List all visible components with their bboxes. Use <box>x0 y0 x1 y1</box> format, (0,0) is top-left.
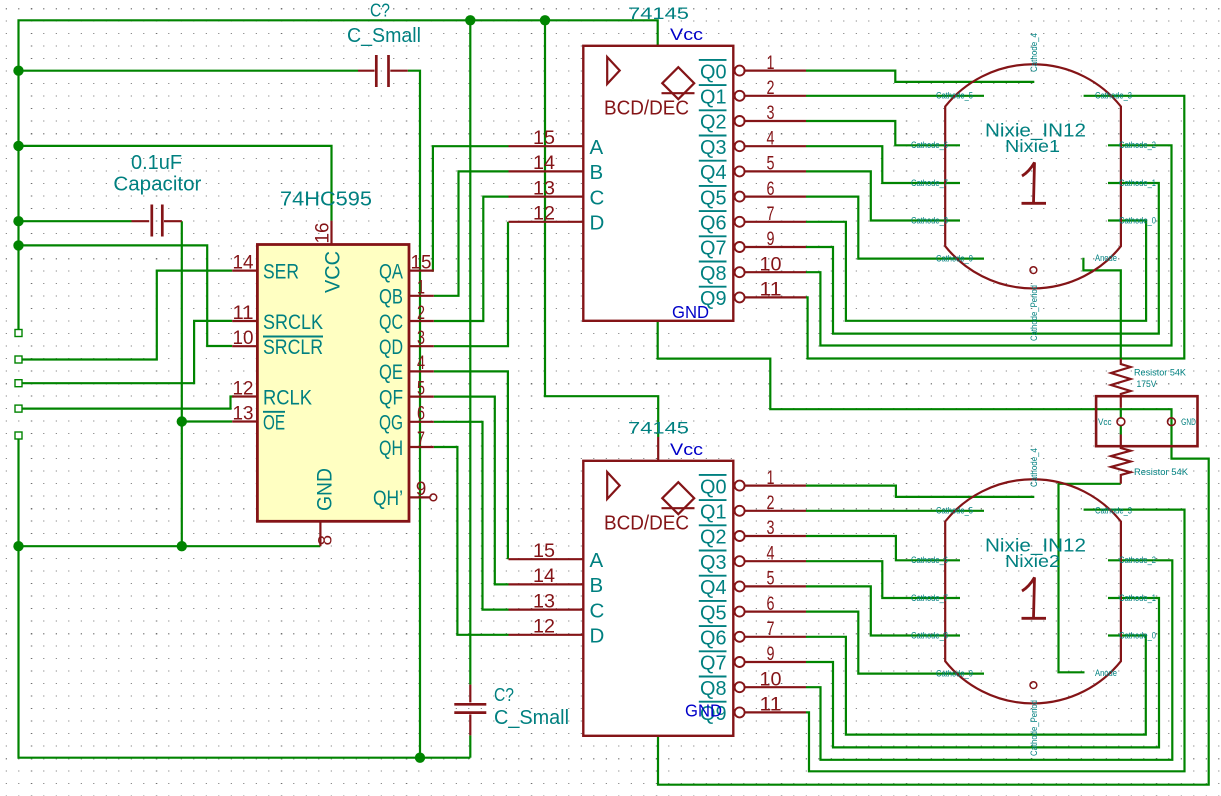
wire junction to C1 left lead <box>19 70 359 72</box>
svg-text:GND: GND <box>1181 417 1196 427</box>
svg-text:Cathode_3: Cathode_3 <box>1095 91 1132 101</box>
pin 13 C U2 <box>509 178 605 209</box>
IC U1 74HC595 body <box>257 245 409 522</box>
svg-text:0.1uF: 0.1uF <box>131 151 182 174</box>
svg-text:D: D <box>590 625 605 648</box>
svg-text:BCD/DEC: BCD/DEC <box>604 512 689 535</box>
pin 3 Q2 U3 (inverted output) <box>699 518 806 549</box>
svg-text:1: 1 <box>767 468 775 489</box>
pin 7 QH U1 <box>379 429 434 460</box>
wire input to U1 SRCLK pin 11 <box>19 321 233 383</box>
svg-text:GND: GND <box>672 302 709 322</box>
wire U3 Q1 to V2 Cathode_5 <box>806 510 984 512</box>
wire input to U1 RCLK pin 12 <box>19 397 234 409</box>
svg-text:13: 13 <box>533 178 555 199</box>
svg-text:3: 3 <box>767 518 775 539</box>
wire input to U1 SRCLR pin 10 <box>19 245 233 346</box>
svg-text:10: 10 <box>760 254 782 275</box>
U3 buffer triangle symbol <box>607 472 620 499</box>
pin 6 Q5 U3 (inverted output) <box>699 594 806 625</box>
svg-text:Q3: Q3 <box>700 551 727 574</box>
svg-text:QB: QB <box>379 286 403 309</box>
wire U3 Q4 to V2 Cathode_8 <box>806 586 960 635</box>
svg-text:Q1: Q1 <box>700 86 727 109</box>
pin 15 QA U1 <box>379 252 434 283</box>
svg-text:Cathode_6: Cathode_6 <box>911 555 948 565</box>
wire U3 Q9 to V2 Cathode_3 <box>806 510 1185 772</box>
svg-text:11: 11 <box>760 280 782 301</box>
pin 6 QG U1 <box>379 404 434 435</box>
svg-text:SER: SER <box>263 260 299 283</box>
wire U1 QA to U2 A <box>433 146 509 270</box>
junction (420,757.7) <box>415 753 425 763</box>
pin 15 A U3 <box>509 541 604 572</box>
resistor R1 54K (upper) <box>1111 359 1131 408</box>
wire GND chain: U2 GND, J1 GND pin, bottom right rail to U3 GND <box>658 321 1209 785</box>
svg-text:Q5: Q5 <box>700 186 727 209</box>
open wire end (18.5,383.2) <box>15 380 22 387</box>
wire U2 Q1 to V1 Cathode_5 <box>806 95 984 97</box>
IC U3 74145 body <box>583 461 733 736</box>
pin 16 VCC U1 (top) <box>313 221 345 293</box>
svg-text:15: 15 <box>533 128 555 149</box>
svg-text:13: 13 <box>233 403 254 424</box>
Nixie1 pin Cathode_Period (bottom, unconnected) <box>1030 267 1037 274</box>
svg-text:15: 15 <box>411 252 432 273</box>
pin 12 D U2 <box>509 204 605 235</box>
svg-text:Resistor 54K: Resistor 54K <box>1134 368 1187 378</box>
svg-text:3: 3 <box>417 328 425 349</box>
pin 4 QE U1 <box>379 353 434 384</box>
junction (181.8,546.2) <box>177 541 187 551</box>
pin Vcc U3 stub <box>657 437 659 461</box>
svg-text:74145: 74145 <box>628 420 689 438</box>
capacitor C1 C? C_Small (top) <box>358 55 408 87</box>
svg-text:C: C <box>590 186 605 209</box>
wire U1 QB to U2 B <box>434 171 509 295</box>
svg-text:Q2: Q2 <box>700 526 727 549</box>
svg-text:QH: QH <box>379 437 403 460</box>
pin 5 Q4 U3 (inverted output) <box>699 569 806 600</box>
svg-text:Cathode_4: Cathode_4 <box>1029 448 1039 487</box>
open wire end (18.5,333) <box>15 330 22 337</box>
wire GND left bus down and bottom rail to C3 <box>19 436 471 758</box>
svg-text:16: 16 <box>313 223 334 244</box>
wire U2 Q7 to V1 Cathode_1 <box>806 183 1159 334</box>
junction (18.5,245.4) <box>13 240 23 250</box>
svg-text:C_Small: C_Small <box>347 25 421 47</box>
pin 11 Q9 U2 (inverted output) <box>699 280 806 311</box>
svg-text:GND: GND <box>685 701 722 721</box>
svg-text:Q0: Q0 <box>700 475 727 498</box>
svg-text:14: 14 <box>233 252 254 273</box>
svg-text:QG: QG <box>379 412 403 435</box>
wire U2 Q0 to V1 Cathode_4 <box>806 71 1034 82</box>
pin 7 Q6 U2 (inverted output) <box>699 204 806 235</box>
wire C2 right lead down to GND rail <box>181 221 183 546</box>
svg-text:OE: OE <box>263 411 285 434</box>
U2 open-collector diamond symbol <box>662 67 695 99</box>
pin 4 Q3 U3 (inverted output) <box>699 543 806 574</box>
svg-text:Q7: Q7 <box>700 652 727 675</box>
svg-text:QD: QD <box>379 336 403 359</box>
svg-text:Nixie2: Nixie2 <box>1005 551 1060 571</box>
svg-text:Cathode_5: Cathode_5 <box>936 91 973 101</box>
pin 9 QH' U1 (unconnected) <box>373 479 437 510</box>
svg-text:9: 9 <box>767 229 775 250</box>
svg-text:6: 6 <box>417 404 425 425</box>
svg-text:4: 4 <box>417 353 425 374</box>
wire C1 right lead down to bottom rail <box>408 71 420 758</box>
svg-text:Cathode_2: Cathode_2 <box>1119 555 1156 565</box>
svg-text:RCLK: RCLK <box>263 386 312 409</box>
svg-text:Q6: Q6 <box>700 212 727 235</box>
pin 8 GND U1 (bottom) <box>314 468 337 546</box>
svg-text:10: 10 <box>233 328 254 349</box>
junction (18.5,70.7) <box>13 66 23 76</box>
svg-text:Cathode_9: Cathode_9 <box>936 668 973 678</box>
svg-text:15: 15 <box>533 541 555 562</box>
wire U2 Q6 to V1 Cathode_0 <box>806 221 1146 321</box>
svg-text:Cathode_4: Cathode_4 <box>1029 33 1039 72</box>
svg-text:Nixie1: Nixie1 <box>1005 136 1060 156</box>
svg-text:8: 8 <box>316 535 337 546</box>
svg-text:Anode: Anode <box>1095 668 1117 678</box>
wire U2 Q9 to V1 Cathode_3 <box>806 96 1184 359</box>
svg-text:Cathode_5: Cathode_5 <box>936 506 973 516</box>
svg-text:Cathode_7: Cathode_7 <box>911 593 948 603</box>
pin 1 QB U1 <box>379 278 434 309</box>
svg-text:5: 5 <box>767 154 775 175</box>
pin 14 B U2 <box>509 153 604 184</box>
junction (18.5,221.2) <box>13 216 23 226</box>
svg-text:12: 12 <box>233 378 254 399</box>
pin 9 Q7 U2 (inverted output) <box>699 229 806 260</box>
svg-text:C: C <box>590 599 605 622</box>
wire stub below J1 Vcc pin circle <box>1120 426 1122 435</box>
open wire end (18.5,359.5) <box>15 356 22 363</box>
connector J1 box <box>1096 396 1197 446</box>
wire U1 QC to U2 C <box>434 197 509 321</box>
svg-text:QC: QC <box>379 311 403 334</box>
svg-text:QE: QE <box>379 361 403 384</box>
capacitor C3 C? C_Small (bottom) <box>454 685 486 736</box>
svg-text:11: 11 <box>760 695 782 716</box>
wire U2 Q8 to V1 Cathode_2 <box>806 145 1172 345</box>
wire U2 Q4 to V1 Cathode_8 <box>806 171 960 220</box>
wire U1 QE to U3 A <box>434 371 508 559</box>
svg-text:Cathode_7: Cathode_7 <box>911 178 948 188</box>
svg-text:Cathode_Period: Cathode_Period <box>1029 285 1039 341</box>
pin 12 D U3 <box>509 617 605 648</box>
svg-text:C?: C? <box>370 1 390 21</box>
svg-text:Cathode_0: Cathode_0 <box>1119 215 1156 225</box>
svg-text:Q2: Q2 <box>700 111 727 134</box>
svg-text:Cathode_8: Cathode_8 <box>911 215 948 225</box>
pin 7 Q6 U3 (inverted output) <box>699 619 806 650</box>
pin 15 A U2 <box>509 128 604 159</box>
wire U2 Q3 to V1 Cathode_7 <box>806 146 960 183</box>
pin 13 C U3 <box>509 591 605 622</box>
svg-text:Q6: Q6 <box>700 627 727 650</box>
svg-text:C?: C? <box>494 685 514 705</box>
pin 14 B U3 <box>509 566 604 597</box>
wire U3 Q7 to V2 Cathode_1 <box>806 598 1159 747</box>
connector J1 GND pin circle <box>1168 418 1176 426</box>
wire stub into J1 Vcc pin (above circle) <box>1120 408 1122 418</box>
wire bus to C2 left lead <box>19 220 132 222</box>
pin 9 Q7 U3 (inverted output) <box>699 644 806 675</box>
pin 6 Q5 U2 (inverted output) <box>699 179 806 210</box>
svg-text:Q4: Q4 <box>700 576 727 599</box>
pin 5 Q4 U2 (inverted output) <box>699 154 806 185</box>
svg-text:Q3: Q3 <box>700 136 727 159</box>
pin 11 SRCLK U1 <box>232 303 323 334</box>
wire Vcc rail: left bus up, across top, into U2 Vcc pin <box>19 20 658 333</box>
svg-text:10: 10 <box>760 669 782 690</box>
svg-text:74HC595: 74HC595 <box>280 188 372 211</box>
wire U1 QG to U3 C <box>434 422 509 610</box>
svg-text:Q4: Q4 <box>700 161 727 184</box>
svg-text:4: 4 <box>767 543 775 564</box>
pin 12 RCLK U1 <box>232 378 312 409</box>
svg-text:SRCLR: SRCLR <box>263 336 323 359</box>
pin 1 Q0 U3 (inverted output) <box>699 468 806 499</box>
pin 1 Q0 U2 (inverted output) <box>699 53 806 84</box>
pin 2 QC U1 <box>379 303 434 334</box>
svg-text:14: 14 <box>533 566 555 587</box>
IC U2 74145 body <box>583 46 733 321</box>
svg-text:C_Small: C_Small <box>494 707 569 729</box>
wire C3 bottom lead to bottom rail <box>469 735 471 757</box>
pin 2 Q1 U3 (inverted output) <box>699 493 806 524</box>
svg-text:2: 2 <box>767 493 775 514</box>
svg-text:Capacitor: Capacitor <box>113 173 201 196</box>
capacitor C2 0.1uF (left) <box>132 205 182 237</box>
svg-text:QF: QF <box>379 386 403 409</box>
svg-text:Q8: Q8 <box>700 677 727 700</box>
connector J1 Vcc pin circle <box>1117 418 1125 426</box>
wire U3 Q5 to V2 Cathode_9 <box>806 612 984 674</box>
svg-text:6: 6 <box>767 179 775 200</box>
svg-text:VCC: VCC <box>322 251 345 293</box>
svg-text:Q1: Q1 <box>700 501 727 524</box>
pin 10 Q8 U2 (inverted output) <box>699 254 806 285</box>
junction (545,20.3) <box>540 15 550 25</box>
svg-text:12: 12 <box>533 617 555 638</box>
svg-text:5: 5 <box>417 378 425 399</box>
svg-text:Cathode_9: Cathode_9 <box>936 253 973 263</box>
svg-text:Cathode_Period: Cathode_Period <box>1029 700 1039 756</box>
pin 2 Q1 U2 (inverted output) <box>699 78 806 109</box>
svg-text:B: B <box>590 574 604 597</box>
svg-text:QA: QA <box>379 260 403 283</box>
pin 10 SRCLR U1 <box>232 328 323 359</box>
svg-text:9: 9 <box>416 479 427 500</box>
svg-text:A: A <box>590 549 604 572</box>
svg-text:7: 7 <box>767 619 775 640</box>
wire Vcc bus to U1 VCC pin 16 <box>19 146 332 221</box>
svg-text:13: 13 <box>533 591 555 612</box>
wire branch to U1 OE pin 13 <box>182 420 232 422</box>
wire input to U1 SER pin 14 <box>19 271 233 360</box>
svg-text:5: 5 <box>767 569 775 590</box>
pin 13 OE U1 <box>232 403 285 434</box>
wire U3 Q6 to V2 Cathode_0 <box>806 636 1146 735</box>
nixie tube Nixie2 Nixie_IN12 body <box>945 479 1121 703</box>
svg-text:7: 7 <box>767 204 775 225</box>
svg-text:Cathode_6: Cathode_6 <box>911 140 948 150</box>
svg-text:14: 14 <box>533 153 555 174</box>
svg-text:7: 7 <box>417 429 425 450</box>
pin 4 Q3 U2 (inverted output) <box>699 128 806 159</box>
pin 11 Q9 U3 (inverted output) <box>699 695 806 726</box>
svg-text:Cathode_0: Cathode_0 <box>1119 630 1156 640</box>
wire U1 QH to U3 D <box>434 447 509 635</box>
svg-text:Cathode_1: Cathode_1 <box>1119 178 1156 188</box>
svg-text:Cathode_1: Cathode_1 <box>1119 593 1156 603</box>
pin 10 Q8 U3 (inverted output) <box>699 669 806 700</box>
wire U3 Q8 to V2 Cathode_2 <box>806 560 1172 760</box>
svg-text:Vcc: Vcc <box>670 25 704 44</box>
svg-text:4: 4 <box>767 128 775 149</box>
svg-text:Vcc: Vcc <box>670 440 704 459</box>
svg-text:GND: GND <box>314 468 337 511</box>
junction (18.5,546.2) <box>13 541 23 551</box>
svg-text:B: B <box>590 161 604 184</box>
pin 5 QF U1 <box>379 378 434 409</box>
resistor R2 54K (lower) <box>1111 435 1131 484</box>
svg-text:Vcc: Vcc <box>1098 417 1112 427</box>
svg-text:Cathode_8: Cathode_8 <box>911 630 948 640</box>
U3 open-collector diamond symbol <box>662 482 695 514</box>
junction (470.3,20.3) <box>465 15 475 25</box>
svg-text:Resistor 54K: Resistor 54K <box>1134 467 1189 477</box>
svg-text:SRCLK: SRCLK <box>263 311 323 334</box>
svg-text:6: 6 <box>767 594 775 615</box>
pin 3 Q2 U2 (inverted output) <box>699 103 806 134</box>
svg-text:Q7: Q7 <box>700 237 727 260</box>
Nixie2 big digit 1 <box>1022 578 1047 619</box>
svg-text:2: 2 <box>767 78 775 99</box>
svg-text:Cathode_2: Cathode_2 <box>1119 140 1156 150</box>
wire U3 Q2 to V2 Cathode_6 <box>806 536 960 560</box>
svg-text:D: D <box>590 212 605 235</box>
svg-text:9: 9 <box>767 644 775 665</box>
svg-text:Anode: Anode <box>1095 253 1117 263</box>
svg-text:Q0: Q0 <box>700 60 727 83</box>
svg-text:Cathode_3: Cathode_3 <box>1095 506 1132 516</box>
open wire end (18.5,408.6) <box>15 405 22 412</box>
svg-text:175V: 175V <box>1137 379 1158 389</box>
wire U1 QD to U2 D <box>434 222 508 346</box>
svg-text:3: 3 <box>767 103 775 124</box>
wire V1 Anode to R1 top <box>1083 258 1120 359</box>
Nixie2 pin Cathode_Period (bottom, unconnected) <box>1030 682 1037 689</box>
svg-text:QH’: QH’ <box>373 487 403 510</box>
wire R2 bottom to V2 Anode <box>1059 484 1121 673</box>
wire U3 Q0 to V2 Cathode_4 <box>806 486 1034 497</box>
junction (181.8,421.5) <box>177 416 187 426</box>
svg-text:74145: 74145 <box>628 5 689 23</box>
wire Vcc drop to U3 Vcc pin <box>545 20 658 437</box>
svg-text:BCD/DEC: BCD/DEC <box>604 97 689 120</box>
open wire end (18.5,435.5) <box>15 432 22 439</box>
svg-text:11: 11 <box>233 303 254 324</box>
svg-text:2: 2 <box>417 303 425 324</box>
junction (18.5,145.9) <box>13 141 23 151</box>
svg-text:1: 1 <box>417 278 425 299</box>
wire U2 Q5 to V1 Cathode_9 <box>806 197 984 259</box>
U2 buffer triangle symbol <box>607 57 620 84</box>
pin 3 QD U1 <box>379 328 434 359</box>
svg-text:Q8: Q8 <box>700 262 727 285</box>
svg-text:A: A <box>590 136 604 159</box>
svg-text:12: 12 <box>533 204 555 225</box>
svg-text:1: 1 <box>767 53 775 74</box>
wire GND rail to U1 GND pin 8 <box>19 545 321 547</box>
nixie tube Nixie1 Nixie_IN12 body <box>945 64 1121 288</box>
Nixie1 big digit 1 <box>1022 163 1047 204</box>
svg-text:Q5: Q5 <box>700 601 727 624</box>
wire U2 Q2 to V1 Cathode_6 <box>806 121 960 145</box>
wire Vcc drop to C3 top lead <box>469 20 471 684</box>
pin 14 SER U1 <box>232 252 299 283</box>
wire U1 QF to U3 B <box>434 397 509 585</box>
wire U3 Q3 to V2 Cathode_7 <box>806 561 960 598</box>
